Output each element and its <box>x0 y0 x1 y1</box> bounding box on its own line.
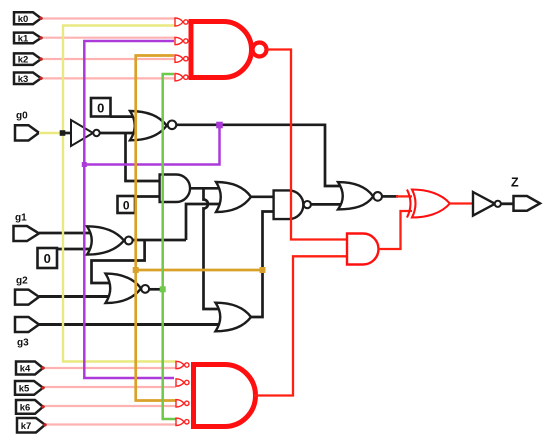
wire connection dot k7 <box>43 423 46 426</box>
junction black g0/yellow <box>60 130 66 136</box>
wire AND U6 output to OR U7 in1 <box>190 187 222 190</box>
svg-text:g3: g3 <box>17 338 29 349</box>
wire k4 pink <box>43 367 176 369</box>
wire connection dot k3 <box>39 77 42 80</box>
wire NOR U5 output jog down to NOR U10 in1 <box>92 240 145 283</box>
wire OR U7 output to NAND U8 in1 <box>251 195 274 198</box>
wire NOR U4 output to green junction <box>149 288 163 291</box>
AND gate U6 <box>160 175 190 203</box>
input tag k2 <box>14 53 41 65</box>
svg-text:k1: k1 <box>18 34 29 45</box>
inverter U15 <box>473 192 501 216</box>
wire k6 pink <box>43 405 176 407</box>
wire connection dot k0 <box>39 17 42 20</box>
wire k0 pink <box>41 17 175 19</box>
wire inverter output branch down to AND U6 in1 <box>126 133 161 181</box>
svg-text:0: 0 <box>123 198 130 212</box>
wire connection dot k4 <box>41 366 44 369</box>
constant 0 box4 <box>118 196 136 213</box>
input tag g3 <box>15 317 39 349</box>
OR gate U11 (g3) <box>216 303 252 332</box>
wire const 0 box1 to NOR U3 in1 <box>110 115 138 118</box>
wire red NOR U9 out to XOR in1 <box>396 195 412 197</box>
svg-text:k6: k6 <box>20 402 31 413</box>
wire yellow net g0 to top NAND in1 <box>63 26 176 362</box>
wire red U13 output up to XOR in2 <box>379 211 413 249</box>
wire const 0 box4 to AND U6 in2 <box>135 195 160 198</box>
wire g3 to OR U11 in2 <box>39 323 222 326</box>
wire orange branch <box>136 269 263 272</box>
input tag k3 <box>14 73 41 85</box>
wire NAND U8 output to NOR U9 in2 <box>311 203 348 206</box>
OR gate U7 <box>216 182 251 212</box>
wire OR U11 output up to NAND U8 in2 <box>251 212 274 318</box>
NOR gate U9 <box>338 182 382 209</box>
svg-text:k4: k4 <box>20 364 31 375</box>
inverted input marker U12 pin3 <box>176 400 189 407</box>
wire k1 pink <box>41 37 175 39</box>
wire inverter U15 to Z tag <box>501 202 514 205</box>
wire AND U6 output branch down to OR U11 in1 <box>204 188 223 309</box>
svg-text:0: 0 <box>44 251 51 266</box>
junction purple T <box>82 162 87 167</box>
wire purple branch to black node <box>84 125 219 165</box>
NOR gate U5 (g1) <box>87 226 133 254</box>
wire red XOR output to inverter U15 <box>450 202 472 204</box>
inverted input marker U12 pin1 <box>176 361 189 368</box>
wire NOR U3 output to NOR U9 in1 <box>177 125 349 186</box>
wire green net k3 <box>163 74 176 419</box>
output tag Z <box>511 176 540 211</box>
input tag k6 <box>16 400 43 414</box>
input tag g2 <box>15 276 39 305</box>
wire connection dot k2 <box>39 57 42 60</box>
svg-text:k0: k0 <box>18 14 29 25</box>
svg-text:0: 0 <box>97 100 104 115</box>
svg-text:k5: k5 <box>19 383 30 394</box>
svg-text:g2: g2 <box>16 276 28 287</box>
svg-text:k3: k3 <box>18 74 29 85</box>
wire k5 pink <box>43 386 176 388</box>
wire g0 to inverter <box>63 132 72 135</box>
wire connection dot k5 <box>41 386 44 389</box>
svg-text:Z: Z <box>511 176 519 190</box>
inverted input marker U1 pin4 <box>175 74 188 81</box>
wire g2 to NOR U10 in2 <box>39 295 113 298</box>
junction orange T <box>133 267 139 273</box>
XOR gate U14 (red) <box>407 190 450 218</box>
NOR gate U10 (g2) <box>106 274 150 303</box>
wire red U12 output up to red AND U13 in2 <box>254 256 346 395</box>
input tag g1 <box>14 213 40 242</box>
constant 0 box1 <box>91 98 111 117</box>
inverted input marker U1 pin1 <box>175 18 188 26</box>
wire g1 to NOR U5 in1 <box>39 232 95 235</box>
input tag k5 <box>15 381 43 395</box>
NOR gate U3 <box>130 111 176 140</box>
input tag k4 <box>16 362 43 375</box>
wire connection dot k6 <box>41 405 44 408</box>
wire inverter U2 output to NOR U3 <box>100 132 138 135</box>
AND gate U12 (red, bottom, 4 inverted inputs) <box>194 365 256 427</box>
wire g0 yellow from tag <box>39 132 63 134</box>
wire NOR U9 output to XOR <box>382 195 398 198</box>
inverted input marker U12 pin4 <box>176 418 189 425</box>
wire NOR U5 output jog to OR U7 in2 <box>133 204 222 240</box>
wire red U1 output down to red AND U13 in1 <box>267 50 346 240</box>
input tag k0 <box>14 12 41 25</box>
svg-text:k7: k7 <box>21 421 32 432</box>
wire orange net k2 <box>136 56 176 401</box>
wire k2 pink <box>41 58 175 60</box>
inverted input marker U1 pin2 <box>175 37 188 44</box>
svg-text:k2: k2 <box>18 55 29 66</box>
junction purple on NOR U3 output net <box>216 122 223 129</box>
junction orange on black vertical <box>260 267 266 273</box>
inverted input marker U1 pin3 <box>175 55 188 62</box>
input tag k1 <box>14 33 41 45</box>
AND gate U13 (red) <box>347 234 378 265</box>
wire k3 pink <box>41 77 175 79</box>
constant 0 box3 <box>38 248 58 268</box>
svg-text:g0: g0 <box>16 111 28 122</box>
NAND gate U8 <box>274 190 311 219</box>
input tag g0 <box>15 111 39 141</box>
junction green NOR U10 output <box>160 286 166 292</box>
svg-text:g1: g1 <box>15 213 27 224</box>
wire k7 pink <box>45 423 176 425</box>
inverted input marker U12 pin2 <box>176 379 189 386</box>
wire connection dot k1 <box>39 36 42 39</box>
input tag k7 <box>17 418 45 433</box>
wire purple net k1 <box>84 41 174 378</box>
wire const 0 box3 to NOR U5 in2 <box>57 248 95 251</box>
inverter U2 (g0) <box>71 120 100 146</box>
NAND gate U1 (red, 4 inverted inputs) <box>191 22 267 78</box>
